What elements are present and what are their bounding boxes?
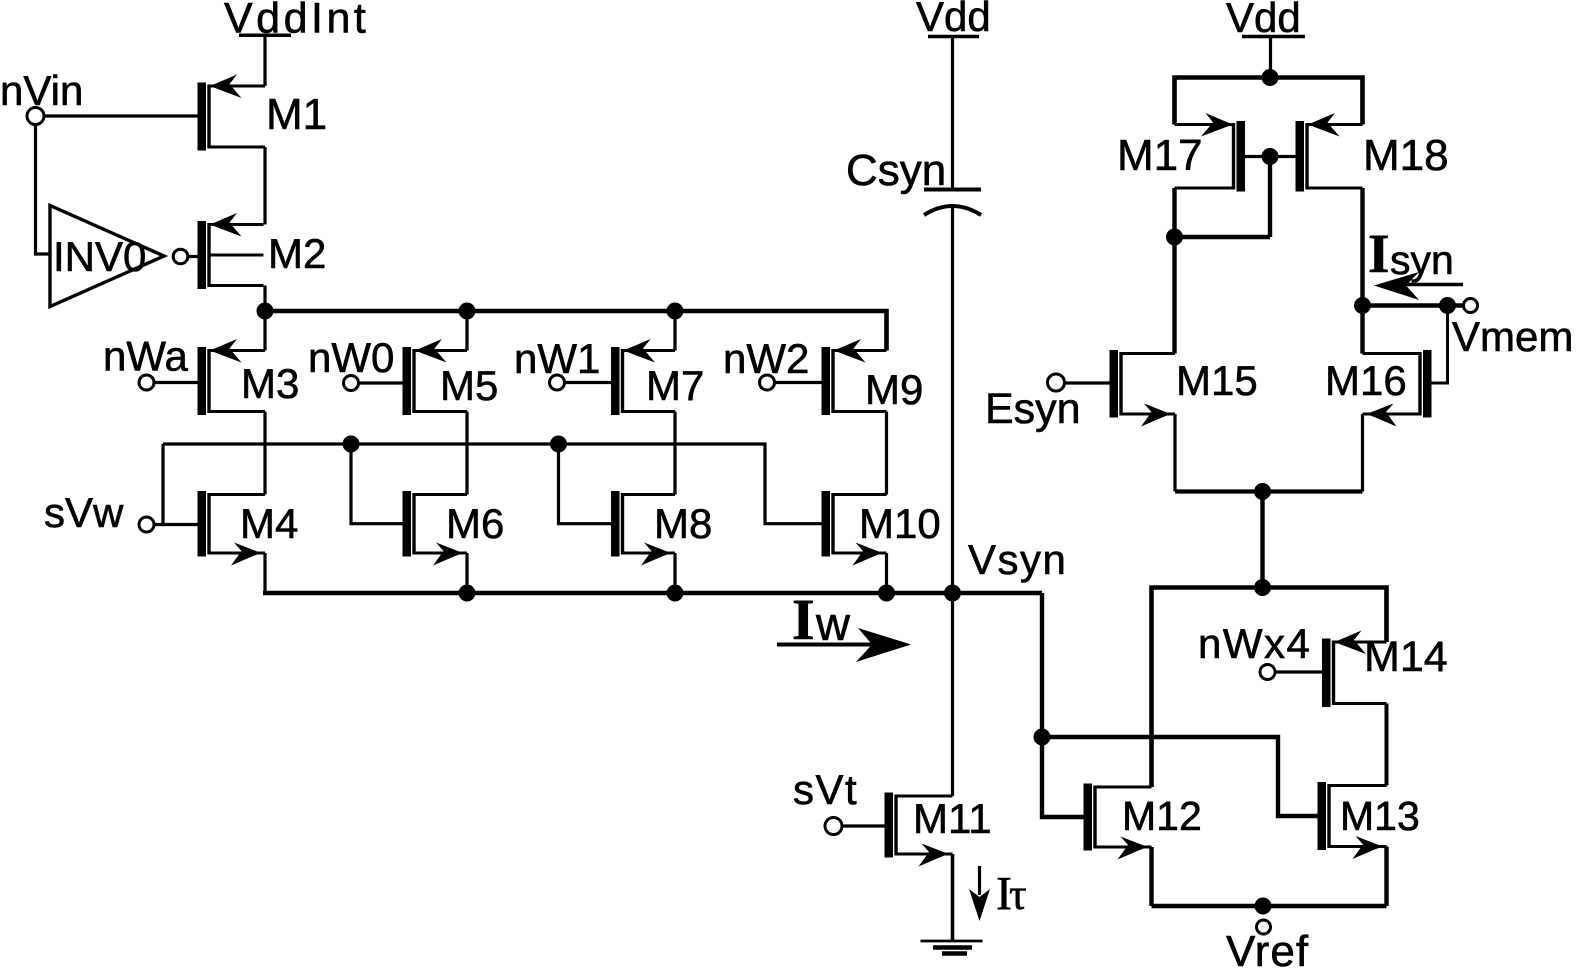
terminal Vmem (1464, 299, 1478, 313)
svg-text:M8: M8 (654, 500, 712, 547)
wire nW1 to M7 gate (565, 381, 612, 384)
wire M12 source to Vref rail (1149, 847, 1153, 906)
wire M5 drain to M6 drain (465, 412, 468, 495)
junction node Vsyn (944, 585, 961, 602)
wire M17 drain down (1172, 188, 1176, 354)
wire M16 source down (1361, 414, 1364, 492)
wire bias bus to M6 gate (351, 444, 403, 524)
wire M6 source to sum bus (465, 553, 468, 593)
terminal nWa (139, 375, 154, 390)
svg-text:M9: M9 (865, 366, 923, 413)
terminal Vref (1257, 920, 1271, 934)
terminal nVin (27, 108, 44, 125)
svg-text:M13: M13 (1340, 793, 1420, 839)
svg-text:M10: M10 (859, 500, 941, 547)
transistor M8 (611, 491, 620, 557)
terminal nW2 (760, 375, 775, 390)
transistor M7 (611, 347, 620, 415)
supply bar Vdd (928, 35, 979, 39)
junction sum bus / M10 (878, 585, 895, 602)
Vref rail (1152, 904, 1387, 909)
wire sVt to M11 gate (842, 824, 885, 827)
supply bar VddInt (239, 34, 291, 38)
svg-text:M5: M5 (440, 362, 498, 409)
transistor M9 (822, 347, 831, 415)
wire Vsyn node to M11 drain (951, 593, 954, 796)
junction sum bus / M6 (459, 585, 476, 602)
wire nVin to M1 gate (45, 114, 198, 117)
transistor M5 (403, 347, 412, 415)
svg-text:M17: M17 (1117, 131, 1203, 180)
svg-text:Esyn: Esyn (985, 385, 1081, 433)
wire M8 source to sum bus (673, 553, 676, 593)
junction weight bus / M3 (257, 303, 274, 320)
svg-text:M12: M12 (1122, 793, 1202, 839)
svg-text:nWa: nWa (103, 333, 188, 380)
transistor M16 (1423, 350, 1432, 418)
svg-text:Vdd: Vdd (916, 0, 991, 40)
wire nWa to M3 gate (154, 381, 198, 384)
wire M3 drain to M4 drain (263, 412, 266, 495)
junction weight bus / M7 (667, 303, 684, 320)
wire M13 source to Vref rail (1384, 847, 1388, 907)
transistor M14 (1322, 639, 1331, 708)
terminal sVw (139, 517, 154, 532)
wire Csyn to Vsyn node (951, 207, 954, 594)
wire Esyn to M15 gate (1064, 381, 1110, 384)
transistor M1 (198, 83, 207, 151)
wire M7 source to bus (673, 311, 676, 351)
wire Vdd to Csyn (951, 37, 954, 190)
junction sum bus / M8 (667, 585, 684, 602)
junction bias bus / M8 gate (550, 436, 567, 453)
wire M9 drain to M10 drain (885, 412, 888, 495)
mirror supply rail (1175, 78, 1363, 125)
wire M3 source to bus (263, 311, 266, 351)
svg-text:M2: M2 (268, 230, 326, 277)
weight bus (263, 311, 887, 351)
terminal Esyn (1048, 374, 1065, 391)
svg-text:M11: M11 (913, 795, 992, 842)
wire Isyn to Vmem terminal (1363, 303, 1465, 307)
wire nW2 to M9 gate (775, 381, 822, 384)
svg-text:w: w (815, 597, 851, 650)
wire bias bus drop to sVw (161, 444, 164, 525)
svg-text:M15: M15 (1176, 357, 1258, 404)
svg-text:syn: syn (1390, 237, 1454, 283)
junction Vref (1255, 898, 1272, 915)
junction bias bus / M6 gate (343, 436, 360, 453)
wire M15 source down (1173, 414, 1176, 492)
junction mirror gates (1262, 148, 1279, 165)
transistor M12 (1084, 784, 1093, 851)
wire Vmem to M16 gate (1432, 306, 1448, 384)
wire M4 source to sum bus (263, 553, 266, 593)
transistor M11 (885, 793, 894, 858)
junction Vmem / M16 gate (1439, 297, 1456, 314)
wire Vdd to mirror rail (1269, 37, 1272, 78)
transistor M18 (1296, 121, 1305, 192)
wire M14 drain to M13 drain (1385, 704, 1389, 786)
wire M18 drain down (1360, 188, 1364, 354)
wire nVin to INV0 input (36, 125, 51, 255)
transistor M6 (403, 491, 412, 557)
junction gate node (1034, 729, 1051, 746)
tail bus M15/M16 (1175, 489, 1363, 493)
wire bubble to M2 gate (188, 255, 198, 258)
wire nWx4 to M14 gate (1275, 670, 1322, 673)
wire M10 source to sum bus (885, 553, 888, 593)
transistor M2 (198, 221, 207, 289)
transistor M15 (1110, 350, 1119, 418)
svg-text:M18: M18 (1363, 131, 1449, 180)
transistor M17 (1237, 121, 1246, 192)
wire M1 drain to M2 source (263, 147, 266, 225)
svg-text:M7: M7 (646, 362, 704, 409)
wire VddInt to M1 source (263, 37, 266, 87)
transistor M3 (198, 347, 207, 415)
wire M5 source to bus (465, 311, 468, 351)
wire gate node to M13 gate (1042, 737, 1318, 816)
svg-text:nWx4: nWx4 (1198, 620, 1311, 667)
svg-text:τ: τ (1009, 870, 1027, 919)
svg-text:I: I (792, 587, 815, 652)
transistor M10 (822, 491, 831, 557)
arrow Iw (777, 643, 875, 647)
transistor M13 (1318, 782, 1327, 850)
arrow Isyn (1398, 283, 1463, 287)
svg-text:sVt: sVt (793, 766, 858, 813)
diode link M17 (1175, 235, 1271, 239)
svg-text:I: I (1368, 223, 1389, 284)
junction M17 drain (1166, 229, 1183, 246)
terminal nW1 (550, 375, 565, 390)
svg-text:INV0: INV0 (53, 233, 146, 280)
svg-text:sVw: sVw (44, 489, 124, 536)
terminal nW0 (344, 376, 359, 391)
svg-text:M4: M4 (240, 500, 298, 547)
capacitor Csyn (924, 188, 981, 192)
junction tail bus (1254, 483, 1271, 500)
svg-text:M16: M16 (1325, 357, 1407, 404)
junction mirror rail (1262, 69, 1279, 86)
wire nW0 to M5 gate (359, 381, 403, 384)
terminal sVt (825, 818, 842, 835)
arrow Itau (978, 866, 981, 895)
svg-text:Vsyn: Vsyn (968, 536, 1067, 583)
wire M17 gate to M18 gate (1245, 155, 1296, 158)
inverter output bubble (173, 249, 188, 264)
wire tail to lower rail (1260, 492, 1264, 588)
wire Vsyn to gate node (1042, 593, 1084, 817)
svg-text:Vmem: Vmem (1452, 313, 1573, 360)
junction weight bus / M5 (459, 303, 476, 320)
svg-text:nW0: nW0 (308, 334, 394, 381)
bias bus sVw (163, 444, 822, 524)
inverter INV0 (50, 206, 164, 307)
wire mirror gates to diode link (1268, 157, 1272, 238)
junction M18 drain / Isyn (1354, 297, 1371, 314)
wire M11 source to ground (951, 854, 955, 941)
svg-text:Vref: Vref (1226, 927, 1309, 968)
wire sVw to M4 gate (154, 523, 198, 526)
lower rail (1152, 588, 1387, 788)
junction lower rail (1254, 579, 1271, 596)
ground (921, 940, 983, 943)
supply bar Vdd right (1242, 35, 1305, 39)
wire bias bus to M8 gate (559, 444, 612, 524)
svg-text:M6: M6 (446, 500, 504, 547)
svg-text:M14: M14 (1364, 633, 1448, 681)
summing bus Iw (263, 591, 1042, 596)
terminal nWx4 (1260, 665, 1275, 680)
wire M7 drain to M8 drain (673, 412, 676, 495)
wire M2 drain to weight bus (263, 286, 266, 312)
transistor M4 (198, 491, 207, 557)
svg-text:M1: M1 (266, 90, 327, 139)
svg-text:M3: M3 (241, 360, 299, 407)
svg-text:nVin: nVin (0, 67, 83, 114)
